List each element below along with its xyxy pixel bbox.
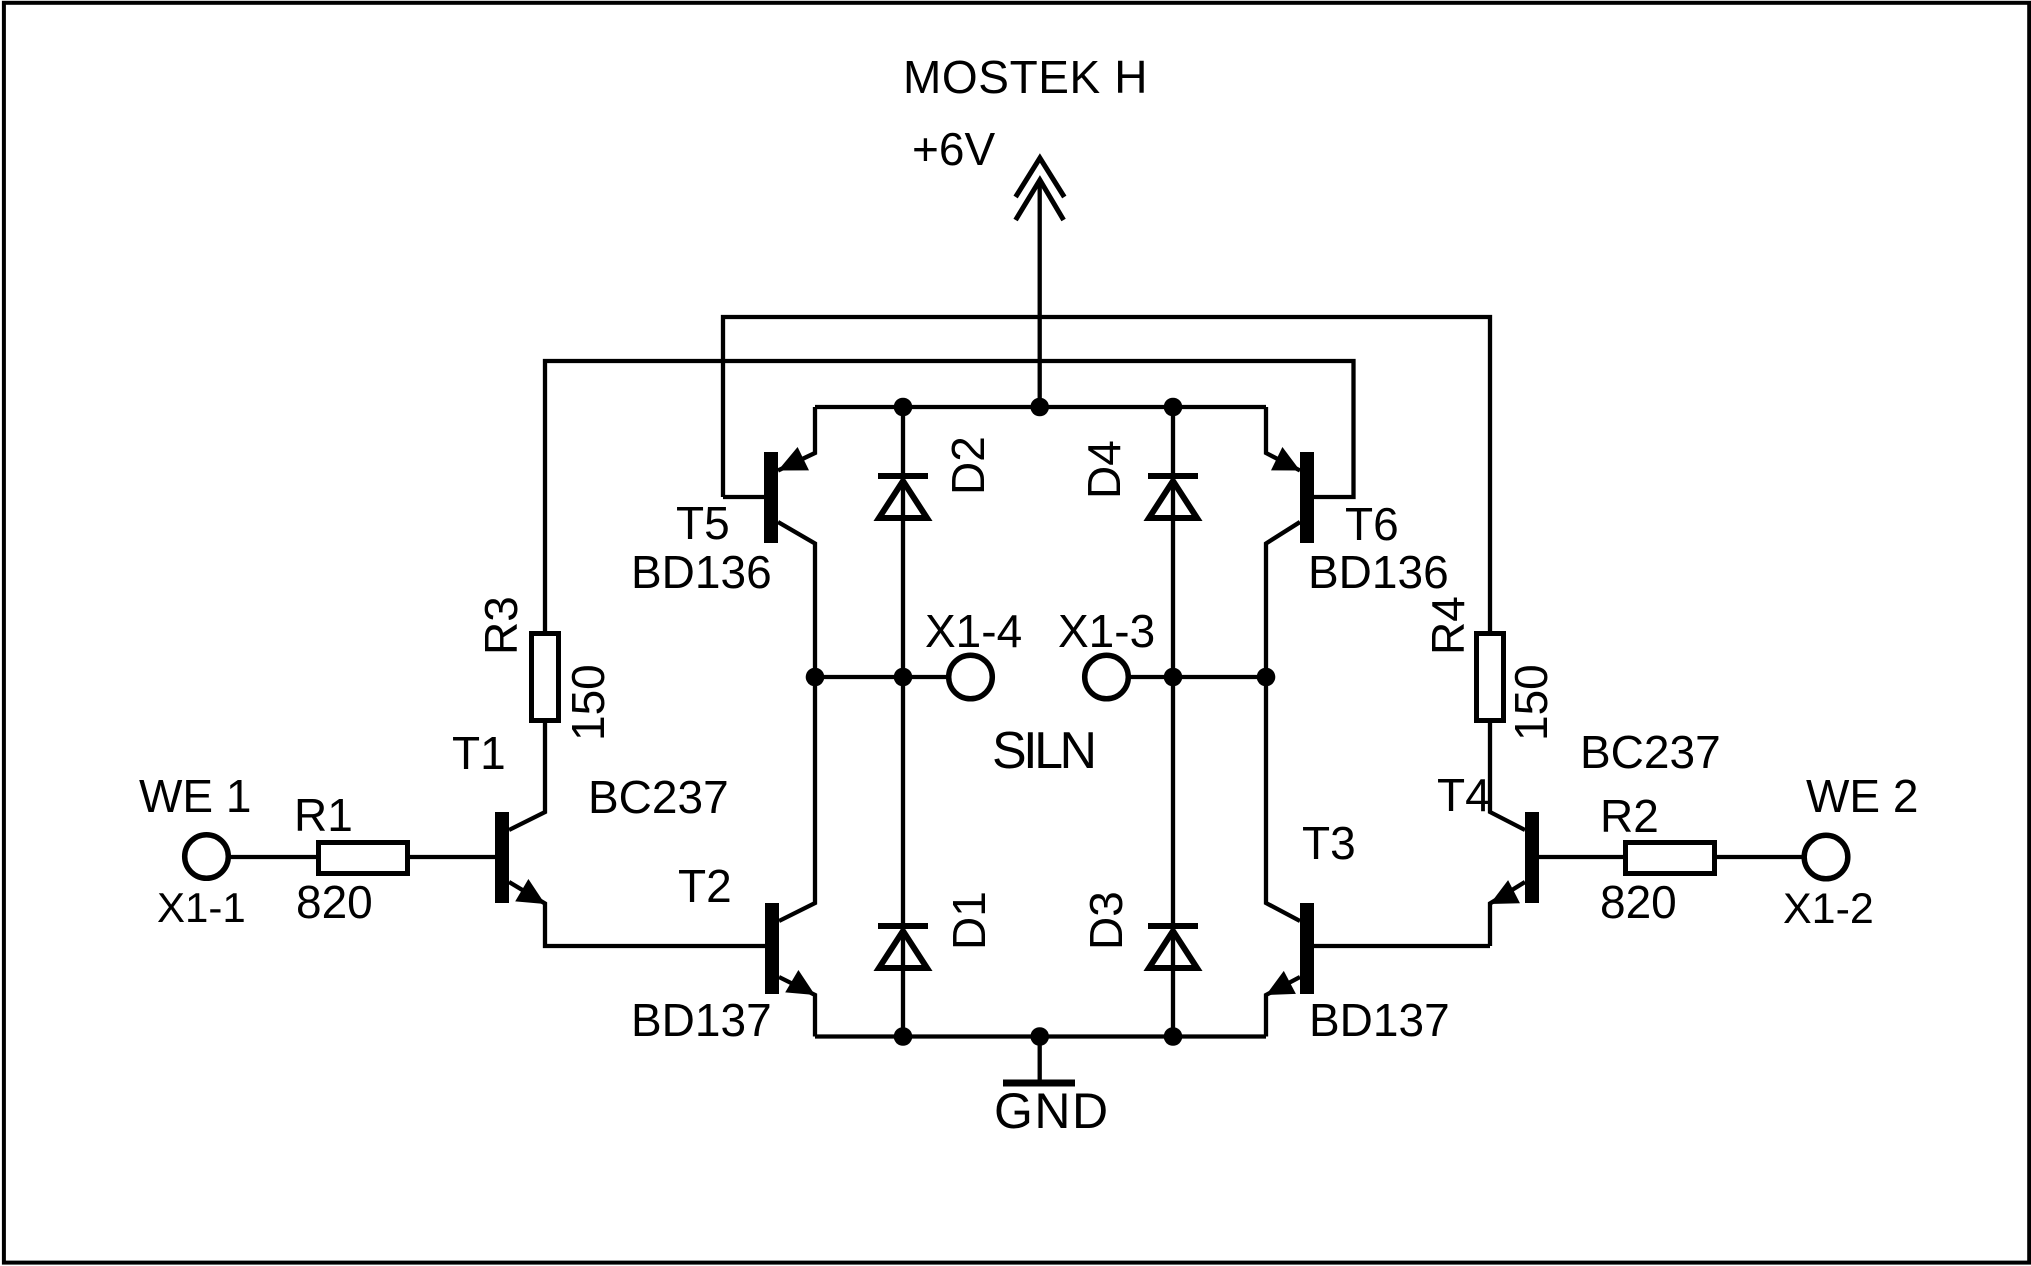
svg-text:T5: T5 xyxy=(676,497,730,549)
svg-text:SILN: SILN xyxy=(992,722,1094,780)
svg-text:D4: D4 xyxy=(1078,440,1130,499)
svg-text:X1-3: X1-3 xyxy=(1058,605,1155,657)
svg-text:BD136: BD136 xyxy=(631,546,772,598)
svg-text:BC237: BC237 xyxy=(1580,726,1721,778)
svg-text:GND: GND xyxy=(994,1083,1110,1139)
svg-text:+6V: +6V xyxy=(912,123,995,175)
svg-text:WE 1: WE 1 xyxy=(139,770,251,822)
svg-text:X1-2: X1-2 xyxy=(1783,885,1874,933)
svg-text:T3: T3 xyxy=(1302,817,1356,869)
svg-text:T4: T4 xyxy=(1437,769,1491,821)
svg-text:T1: T1 xyxy=(452,727,506,779)
svg-text:BC237: BC237 xyxy=(588,771,729,823)
svg-text:150: 150 xyxy=(562,664,614,741)
svg-text:D1: D1 xyxy=(943,891,995,950)
svg-text:D3: D3 xyxy=(1080,891,1132,950)
svg-text:R4: R4 xyxy=(1422,596,1474,655)
svg-text:R3: R3 xyxy=(475,596,527,655)
svg-text:820: 820 xyxy=(296,876,373,928)
svg-text:820: 820 xyxy=(1600,876,1677,928)
svg-text:T2: T2 xyxy=(678,860,732,912)
svg-text:X1-1: X1-1 xyxy=(157,884,246,931)
svg-text:X1-4: X1-4 xyxy=(925,605,1022,657)
svg-text:D2: D2 xyxy=(942,436,994,495)
svg-text:BD136: BD136 xyxy=(1308,546,1449,598)
svg-text:WE 2: WE 2 xyxy=(1806,770,1918,822)
svg-text:150: 150 xyxy=(1505,664,1557,741)
svg-text:MOSTEK H: MOSTEK H xyxy=(903,51,1148,103)
svg-text:T6: T6 xyxy=(1345,498,1399,550)
svg-text:BD137: BD137 xyxy=(1309,994,1450,1046)
svg-text:R2: R2 xyxy=(1600,790,1659,842)
svg-text:BD137: BD137 xyxy=(631,994,772,1046)
svg-text:R1: R1 xyxy=(294,789,353,841)
